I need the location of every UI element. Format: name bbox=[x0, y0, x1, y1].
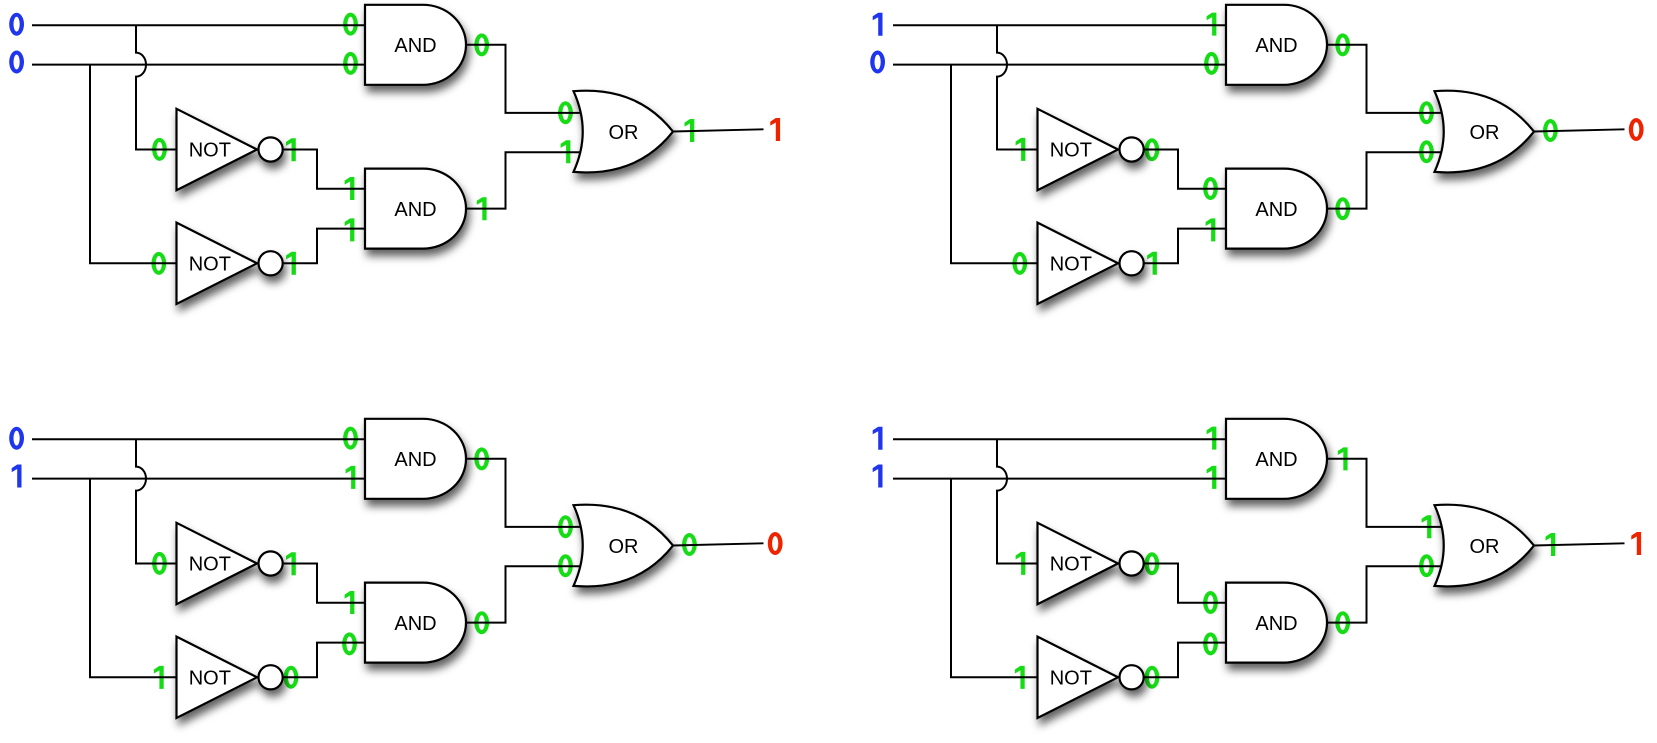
AND gate AND1 (Q2) bbox=[1226, 5, 1327, 85]
AND gate AND2 (Q4) bbox=[1226, 583, 1327, 663]
svg-text:NOT: NOT bbox=[189, 554, 231, 576]
net label AND2 top input = 1 (Q1) bbox=[345, 177, 355, 200]
wire: input A to AND1 top input (Q4) bbox=[893, 438, 1226, 440]
net label NOT2 input = 0 (Q1) bbox=[151, 252, 166, 275]
net label NOT1 output = 1 (Q1) bbox=[286, 138, 296, 161]
net label OR top input = 0 (Q3) bbox=[558, 515, 573, 538]
NOT gate NOT1 with output bubble (Q3) bbox=[177, 523, 283, 604]
net label OR bottom input = 0 (Q3) bbox=[558, 554, 573, 577]
net label NOT1 input = 0 (Q3) bbox=[152, 552, 167, 575]
svg-text:NOT: NOT bbox=[1050, 140, 1092, 162]
NOT gate NOT2 with output bubble (Q1) bbox=[177, 223, 283, 304]
svg-text:NOT: NOT bbox=[189, 254, 231, 276]
OR gate OR1 (Q1) bbox=[574, 91, 674, 173]
wire: input A to AND1 top input (Q3) bbox=[32, 438, 365, 440]
wire: NOT1 output to AND2 top input (Q1) bbox=[283, 150, 365, 189]
net label OR output = 0 (Q3) bbox=[682, 533, 697, 556]
net label OR output = 1 (Q1) bbox=[685, 119, 695, 142]
net label AND1 bottom input = 1 (Q4) bbox=[1207, 466, 1217, 489]
output value label "1" (Q1) bbox=[770, 118, 780, 141]
output value label "0" (Q2) bbox=[1629, 118, 1644, 141]
output value label "1" (Q4) bbox=[1631, 532, 1641, 555]
svg-text:OR: OR bbox=[1470, 122, 1500, 144]
wire: input B to AND1 bottom input (Q4) bbox=[893, 478, 1226, 480]
wire: NOT2 output to AND2 bottom input (Q1) bbox=[283, 229, 365, 264]
net label AND2 output = 0 (Q4) bbox=[1335, 611, 1350, 634]
wire: branch of B down to NOT2 input (Q3) bbox=[90, 479, 177, 678]
net label AND1 bottom input = 0 (Q2) bbox=[1204, 52, 1219, 75]
net label AND1 output = 1 (Q4) bbox=[1338, 447, 1348, 470]
input B value label "0" (Q1) bbox=[9, 50, 24, 73]
svg-text:AND: AND bbox=[394, 35, 436, 57]
NOT gate NOT1 with output bubble (Q4) bbox=[1038, 523, 1144, 604]
net label AND1 bottom input = 1 (Q3) bbox=[346, 466, 356, 489]
wire: OR output to result (Q4) bbox=[1534, 543, 1625, 545]
wire: branch of B down to NOT2 input (Q2) bbox=[951, 65, 1038, 264]
net label AND1 output = 0 (Q2) bbox=[1335, 33, 1350, 56]
net label AND2 output = 0 (Q2) bbox=[1335, 197, 1350, 220]
net label NOT2 output = 1 (Q1) bbox=[286, 252, 296, 275]
net label NOT2 input = 1 (Q4) bbox=[1015, 666, 1025, 689]
svg-text:OR: OR bbox=[609, 122, 639, 144]
wire: NOT2 output to AND2 bottom input (Q2) bbox=[1144, 229, 1226, 264]
OR gate OR1 (Q3) bbox=[574, 505, 674, 587]
net label NOT2 output = 0 (Q3) bbox=[284, 666, 299, 689]
output value label "0" (Q3) bbox=[768, 532, 783, 555]
wire: AND2 output to OR bottom input (Q3) bbox=[466, 566, 581, 622]
input B value label "0" (Q2) bbox=[870, 50, 885, 73]
wire: AND2 output to OR bottom input (Q2) bbox=[1327, 152, 1442, 208]
wire: input A to AND1 top input (Q2) bbox=[893, 24, 1226, 26]
net label AND2 top input = 0 (Q4) bbox=[1203, 591, 1218, 614]
NOT gate NOT2 with output bubble (Q3) bbox=[177, 637, 283, 718]
wire: NOT1 output to AND2 top input (Q4) bbox=[1144, 564, 1226, 603]
net label NOT1 input = 1 (Q2) bbox=[1016, 138, 1026, 161]
wire: OR output to result (Q3) bbox=[673, 543, 764, 545]
net label NOT1 output = 1 (Q3) bbox=[286, 552, 296, 575]
input B value label "1" (Q4) bbox=[873, 465, 883, 488]
svg-text:OR: OR bbox=[609, 536, 639, 558]
net label OR top input = 1 (Q4) bbox=[1422, 515, 1432, 538]
input A value label "0" (Q3) bbox=[9, 427, 24, 450]
AND gate AND1 (Q1) bbox=[365, 5, 466, 85]
net label NOT2 input = 0 (Q2) bbox=[1012, 252, 1027, 275]
svg-text:NOT: NOT bbox=[189, 668, 231, 690]
AND gate AND1 (Q3) bbox=[365, 419, 466, 499]
net label AND2 top input = 1 (Q3) bbox=[345, 591, 355, 614]
NOT gate NOT1 with output bubble (Q2) bbox=[1038, 109, 1144, 190]
wire: NOT1 output to AND2 top input (Q3) bbox=[283, 564, 365, 603]
net label OR bottom input = 0 (Q4) bbox=[1419, 554, 1434, 577]
net label AND1 top input = 1 (Q2) bbox=[1207, 13, 1217, 36]
svg-text:AND: AND bbox=[1255, 613, 1297, 635]
wire: AND2 output to OR bottom input (Q4) bbox=[1327, 566, 1442, 622]
wire: input A to AND1 top input (Q1) bbox=[32, 24, 365, 26]
net label NOT2 input = 1 (Q3) bbox=[154, 666, 164, 689]
svg-text:AND: AND bbox=[394, 613, 436, 635]
wire: AND1 output to OR top input (Q3) bbox=[466, 459, 581, 527]
svg-text:AND: AND bbox=[394, 199, 436, 221]
net label AND1 top input = 0 (Q1) bbox=[343, 13, 358, 36]
AND gate AND2 (Q3) bbox=[365, 583, 466, 663]
wire: input B to AND1 bottom input (Q2) bbox=[893, 64, 1226, 66]
net label OR bottom input = 0 (Q2) bbox=[1419, 140, 1434, 163]
net label AND2 bottom input = 1 (Q1) bbox=[345, 218, 355, 241]
wire: branch of A down to NOT1 input, hop over wire B (Q1) bbox=[136, 25, 177, 149]
net label OR bottom input = 1 (Q1) bbox=[561, 140, 571, 163]
wire: branch of A down to NOT1 input, hop over wire B (Q4) bbox=[997, 439, 1038, 563]
net label NOT1 input = 0 (Q1) bbox=[152, 138, 167, 161]
wire: AND1 output to OR top input (Q1) bbox=[466, 45, 581, 113]
wire: NOT1 output to AND2 top input (Q2) bbox=[1144, 150, 1226, 189]
input B value label "1" (Q3) bbox=[12, 465, 22, 488]
net label NOT2 output = 1 (Q2) bbox=[1147, 252, 1157, 275]
net label AND2 output = 0 (Q3) bbox=[474, 611, 489, 634]
wire: NOT2 output to AND2 bottom input (Q4) bbox=[1144, 643, 1226, 678]
net label AND1 top input = 0 (Q3) bbox=[343, 427, 358, 450]
svg-text:NOT: NOT bbox=[1050, 254, 1092, 276]
svg-text:AND: AND bbox=[1255, 199, 1297, 221]
net label AND1 output = 0 (Q1) bbox=[474, 33, 489, 56]
svg-text:AND: AND bbox=[394, 449, 436, 471]
wire: AND2 output to OR bottom input (Q1) bbox=[466, 152, 581, 208]
NOT gate NOT2 with output bubble (Q4) bbox=[1038, 637, 1144, 718]
svg-text:AND: AND bbox=[1255, 449, 1297, 471]
svg-text:NOT: NOT bbox=[1050, 668, 1092, 690]
svg-text:NOT: NOT bbox=[189, 140, 231, 162]
net label OR output = 0 (Q2) bbox=[1543, 119, 1558, 142]
net label AND2 top input = 0 (Q2) bbox=[1203, 177, 1218, 200]
net label AND2 bottom input = 1 (Q2) bbox=[1206, 218, 1216, 241]
NOT gate NOT1 with output bubble (Q1) bbox=[177, 109, 283, 190]
wire: AND1 output to OR top input (Q2) bbox=[1327, 45, 1442, 113]
wire: branch of B down to NOT2 input (Q4) bbox=[951, 479, 1038, 678]
wire: input B to AND1 bottom input (Q3) bbox=[32, 478, 365, 480]
net label AND2 bottom input = 0 (Q3) bbox=[342, 632, 357, 655]
NOT gate NOT2 with output bubble (Q2) bbox=[1038, 223, 1144, 304]
wire: input B to AND1 bottom input (Q1) bbox=[32, 64, 365, 66]
wire: OR output to result (Q1) bbox=[673, 129, 764, 131]
wire: OR output to result (Q2) bbox=[1534, 129, 1625, 131]
net label OR top input = 0 (Q2) bbox=[1419, 101, 1434, 124]
OR gate OR1 (Q4) bbox=[1435, 505, 1535, 587]
svg-text:NOT: NOT bbox=[1050, 554, 1092, 576]
net label OR output = 1 (Q4) bbox=[1546, 533, 1556, 556]
input A value label "1" (Q4) bbox=[873, 427, 883, 450]
net label NOT1 output = 0 (Q4) bbox=[1145, 552, 1160, 575]
net label AND2 bottom input = 0 (Q4) bbox=[1203, 632, 1218, 655]
net label AND1 top input = 1 (Q4) bbox=[1207, 427, 1217, 450]
net label NOT1 output = 0 (Q2) bbox=[1145, 138, 1160, 161]
wire: branch of A down to NOT1 input, hop over wire B (Q2) bbox=[997, 25, 1038, 149]
wire: NOT2 output to AND2 bottom input (Q3) bbox=[283, 643, 365, 678]
net label OR top input = 0 (Q1) bbox=[558, 101, 573, 124]
input A value label "0" (Q1) bbox=[9, 13, 24, 36]
net label NOT1 input = 1 (Q4) bbox=[1016, 552, 1026, 575]
net label AND2 output = 1 (Q1) bbox=[477, 197, 487, 220]
AND gate AND2 (Q2) bbox=[1226, 169, 1327, 249]
net label AND1 output = 0 (Q3) bbox=[474, 447, 489, 470]
AND gate AND2 (Q1) bbox=[365, 169, 466, 249]
wire: branch of B down to NOT2 input (Q1) bbox=[90, 65, 177, 264]
wire: AND1 output to OR top input (Q4) bbox=[1327, 459, 1442, 527]
wire: branch of A down to NOT1 input, hop over wire B (Q3) bbox=[136, 439, 177, 563]
net label AND1 bottom input = 0 (Q1) bbox=[343, 52, 358, 75]
OR gate OR1 (Q2) bbox=[1435, 91, 1535, 173]
svg-text:OR: OR bbox=[1470, 536, 1500, 558]
svg-text:AND: AND bbox=[1255, 35, 1297, 57]
input A value label "1" (Q2) bbox=[873, 13, 883, 36]
net label NOT2 output = 0 (Q4) bbox=[1145, 666, 1160, 689]
AND gate AND1 (Q4) bbox=[1226, 419, 1327, 499]
